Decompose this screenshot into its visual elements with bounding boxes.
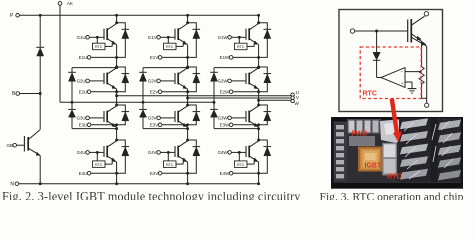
node V bus N junction (186, 182, 189, 185)
svg-text:G2U: G2U (77, 79, 86, 84)
node T3W collector junction (257, 104, 260, 107)
photo bright blob top-center (380, 119, 405, 143)
gate terminal G1W (218, 35, 232, 40)
terminal B (12, 91, 42, 97)
svg-text:G3U: G3U (77, 116, 86, 121)
svg-text:Fig. 2. 3-level IGBT module t: Fig. 2. 3-level IGBT module technology i… (2, 189, 301, 200)
svg-text:RTC: RTC (363, 90, 377, 97)
svg-text:G3V: G3V (148, 116, 157, 121)
node E1V junction (186, 56, 189, 59)
transistor T3V (IGBT) (160, 106, 187, 127)
transistor T3W (IGBT) (231, 106, 258, 127)
svg-text:G4W: G4W (218, 150, 229, 155)
diode DB (brake freewheel, B to P) (36, 47, 44, 56)
transistor T4U (IGBT) (89, 141, 116, 162)
gate terminal G3V (148, 116, 161, 121)
Fig3 emitter wire and terminal (425, 46, 429, 107)
node E2W junction (257, 90, 260, 93)
svg-text:RTC: RTC (387, 174, 401, 181)
diode D3V (antiparallel) (188, 105, 201, 125)
svg-text:E1W: E1W (220, 55, 230, 60)
node T2V collector junction (186, 66, 189, 69)
transistor T2V (IGBT) (160, 68, 187, 89)
wire V bus segments (187, 15, 189, 183)
node E1U junction (115, 56, 118, 59)
Fig3 schematic outer box (339, 10, 443, 112)
RTC block T1W (235, 36, 255, 50)
transistor T4W (IGBT) (231, 141, 258, 162)
node P-left-rail junction (39, 14, 42, 17)
node E3U junction (115, 123, 118, 126)
node E4V junction (186, 172, 189, 175)
gate terminal G4U (77, 150, 90, 155)
wire AK neutral rail horizontal (60, 101, 214, 103)
wire left rail upper (39, 15, 41, 47)
transistor T1W (IGBT) (231, 24, 258, 45)
wire AK neutral vertical (59, 5, 61, 102)
wire U bus segments (116, 15, 118, 183)
svg-text:+: + (401, 81, 404, 86)
svg-text:E3U: E3U (79, 122, 88, 127)
wire left rail middle (39, 56, 41, 129)
svg-text:AK: AK (67, 1, 74, 6)
RTC block T1U (93, 36, 113, 50)
transistor T1U (IGBT) (89, 24, 116, 45)
emitter terminal E1V (150, 55, 188, 60)
node W bus N junction (257, 182, 260, 185)
svg-text:G4U: G4U (77, 150, 86, 155)
svg-text:RTC: RTC (166, 45, 174, 49)
emitter terminal E1W (220, 55, 259, 60)
node E3V junction (186, 123, 189, 126)
svg-text:G1U: G1U (77, 35, 86, 40)
svg-text:RTC: RTC (237, 163, 245, 167)
svg-text:IGBT: IGBT (365, 162, 382, 169)
transistor T2W (IGBT) (231, 68, 258, 89)
node T2U collector junction (115, 66, 118, 69)
diode D3U (antiparallel) (117, 105, 130, 125)
photo RTC chip column (382, 143, 397, 176)
node T4W collector junction (257, 139, 260, 142)
wire P rail (20, 14, 259, 16)
Fig3 RTC dashed highlight box (360, 47, 421, 99)
diode D2W (antiparallel) (259, 67, 272, 92)
photo right angled terminals (399, 118, 461, 182)
svg-text:−: − (400, 70, 403, 75)
svg-text:E4V: E4V (150, 171, 158, 176)
diode D1W (antiparallel) (259, 23, 272, 58)
svg-text:W: W (295, 101, 300, 106)
gate terminal G2W (218, 79, 232, 84)
svg-text:RTC: RTC (237, 45, 245, 49)
node E3W junction (257, 123, 260, 126)
gate terminal G2V (148, 79, 161, 84)
node T1W collector junction (257, 21, 260, 24)
diode D1U (antiparallel) (117, 23, 130, 58)
emitter terminal E3W (220, 122, 259, 127)
node E1W junction (257, 56, 260, 59)
photo red labels (352, 130, 402, 180)
diode D4U (antiparallel) (117, 140, 130, 173)
emitter terminal E2W (220, 89, 259, 94)
emitter terminal E2U (79, 89, 117, 94)
diode D4W (antiparallel) (259, 140, 272, 173)
transistor T4V (IGBT) (160, 141, 187, 162)
Fig3 IGBT Q1 (408, 16, 427, 46)
RTC block T4V (164, 151, 184, 167)
diode D3W (antiparallel) (259, 105, 272, 125)
svg-text:E2V: E2V (150, 89, 158, 94)
transistor T2U (IGBT) (89, 68, 116, 89)
svg-text:Fig. 3. RTC operation and chi: Fig. 3. RTC operation and chip (320, 190, 464, 200)
diode DCU2 (lower clamp) (68, 109, 118, 130)
node E4U junction (115, 172, 118, 175)
output terminal U (115, 90, 299, 97)
Fig3 clamp diode D1 (gate pull-down) (373, 31, 381, 78)
svg-text:RTC: RTC (166, 163, 174, 167)
wire left rail lower (39, 156, 41, 184)
photo IGBT copper die (358, 147, 383, 172)
transistor T3U (IGBT) (89, 106, 116, 127)
svg-text:FWD: FWD (352, 130, 368, 137)
gate terminal G4V (148, 150, 161, 155)
gate terminal G4W (218, 150, 232, 155)
wire N rail (19, 183, 259, 185)
node N-left-rail junction (39, 182, 42, 185)
node phase U top rail junction (115, 14, 118, 17)
caption Fig.2 (2, 189, 301, 203)
transistor GB (brake chopper IGBT) (6, 130, 40, 156)
svg-text:E1V: E1V (150, 55, 158, 60)
node T4U collector junction (115, 139, 118, 142)
photo top-left comb structure (347, 119, 381, 134)
diode DCU1 (upper clamp) (68, 66, 118, 109)
node U bus N junction (115, 182, 118, 185)
gate terminal G3U (77, 116, 90, 121)
node clamp V neutral junction (142, 101, 145, 104)
node phase W top rail junction (257, 14, 260, 17)
svg-text:G1V: G1V (148, 35, 157, 40)
svg-text:GB: GB (6, 143, 12, 148)
Fig3 ground (408, 89, 417, 94)
node T3U collector junction (115, 104, 118, 107)
svg-text:RTC: RTC (95, 45, 103, 49)
transistor T1V (IGBT) (160, 24, 187, 45)
svg-text:E2U: E2U (79, 89, 88, 94)
terminal N (10, 181, 18, 187)
svg-text:RTC: RTC (95, 163, 103, 167)
node T2W collector junction (257, 66, 260, 69)
node clamp U neutral junction (71, 101, 74, 104)
Fig3 gate tap node (375, 30, 378, 33)
RTC block T4W (235, 151, 255, 167)
svg-text:E2W: E2W (220, 89, 230, 94)
node T1U collector junction (115, 21, 118, 24)
diode DCV1 (upper clamp) (139, 66, 189, 109)
Fig3 collector terminal (424, 12, 428, 16)
caption Fig.3 (320, 190, 464, 203)
node clamp W neutral junction (213, 101, 216, 104)
node E2V junction (186, 90, 189, 93)
svg-text:G4V: G4V (148, 150, 157, 155)
Fig3 chip photograph (331, 117, 463, 189)
emitter terminal E1U (79, 55, 117, 60)
svg-text:G2V: G2V (148, 79, 157, 84)
diode D4V (antiparallel) (188, 140, 201, 173)
node T4V collector junction (186, 139, 189, 142)
diode D2V (antiparallel) (188, 67, 201, 92)
emitter terminal E4V (150, 171, 188, 176)
svg-text:G3W: G3W (218, 116, 229, 121)
Fig3 comparator U1 (381, 68, 422, 89)
svg-text:E4U: E4U (79, 171, 88, 176)
node E2U junction (115, 90, 118, 93)
node T3V collector junction (186, 104, 189, 107)
emitter terminal E3U (79, 122, 117, 127)
svg-text:E3W: E3W (220, 122, 230, 127)
Fig3 gate terminal and wire (350, 29, 407, 33)
svg-text:N: N (10, 181, 14, 187)
terminal P (10, 13, 20, 19)
diode D1V (antiparallel) (188, 23, 201, 58)
diode D2U (antiparallel) (117, 67, 130, 92)
terminal AK (58, 1, 74, 6)
svg-text:E4W: E4W (220, 171, 230, 176)
RTC block T4U (93, 151, 113, 167)
emitter terminal E4W (220, 171, 259, 176)
photo left pad ladder (334, 122, 347, 181)
svg-text:E1U: E1U (79, 55, 88, 60)
emitter terminal E3V (150, 122, 188, 127)
emitter terminal E2V (150, 89, 188, 94)
svg-text:G2W: G2W (218, 79, 229, 84)
gate terminal G3W (218, 116, 232, 121)
node E4W junction (257, 172, 260, 175)
photo FWD die region (349, 136, 375, 146)
emitter terminal E4U (79, 171, 117, 176)
gate terminal G1V (148, 35, 161, 40)
node T1V collector junction (186, 21, 189, 24)
diode DCW2 (lower clamp) (210, 109, 260, 130)
RTC block T1V (164, 36, 184, 50)
output terminal V (186, 95, 300, 100)
wire W bus segments (258, 15, 260, 183)
node phase V top rail junction (186, 14, 189, 17)
svg-text:U: U (296, 90, 299, 95)
gate terminal G2U (77, 79, 90, 84)
output terminal W (257, 99, 299, 106)
svg-text:G1W: G1W (218, 35, 229, 40)
diode DCV2 (lower clamp) (139, 109, 189, 130)
diode DCW1 (upper clamp) (210, 66, 260, 109)
gate terminal G1U (77, 35, 90, 40)
Fig3 red arrow to chip photo (392, 99, 402, 142)
Fig3 sense resistor R1 (419, 41, 427, 98)
svg-text:E3V: E3V (150, 122, 158, 127)
